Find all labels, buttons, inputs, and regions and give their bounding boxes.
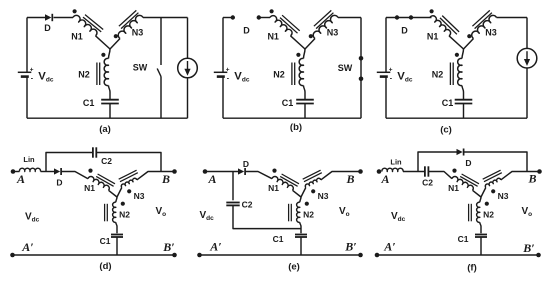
svg-text:N2: N2 (483, 210, 494, 220)
diode D branch (f) (418, 149, 527, 172)
label (c) (440, 125, 452, 136)
node B' (e) (344, 240, 362, 258)
node B' (f) (522, 241, 540, 257)
wire: N3 to top-right (c) (497, 17, 528, 19)
svg-text:N2: N2 (78, 69, 90, 79)
wire: N3 to B (f) (501, 172, 540, 180)
svg-text:D: D (465, 158, 471, 168)
inductor N3 (a) with core and polarity dot (110, 10, 143, 49)
inductor N1 (e) with core and polarity dot (268, 169, 301, 198)
wire: bottom (b) (223, 117, 361, 119)
node: diode cathode terminal (b) (257, 15, 261, 19)
diode D (e) (238, 159, 249, 175)
svg-text:Lin: Lin (23, 155, 35, 164)
capacitor C1 (f) (458, 234, 487, 255)
current source (a) (178, 18, 198, 119)
inductor N3 (f) with core and polarity dot (481, 170, 509, 201)
node B (e) (345, 169, 362, 186)
wire: N3 to top-right (a) (143, 17, 188, 19)
svg-text:A: A (207, 172, 216, 186)
svg-text:(c): (c) (440, 125, 452, 136)
wire: N3 to B (e) (321, 172, 361, 180)
inductor N2 (e) with core and polarity dot (289, 197, 315, 233)
node: diode terminal 2 (c) (409, 15, 413, 19)
svg-text:(e): (e) (288, 262, 300, 273)
node A (e) (203, 169, 217, 186)
svg-text:(a): (a) (99, 124, 111, 135)
capacitor C1 (b) (282, 98, 314, 118)
label Vdc (e) (200, 210, 215, 222)
voltage source Vdc (b) (214, 18, 250, 119)
svg-text:D: D (243, 159, 249, 169)
svg-text:B′: B′ (344, 240, 356, 254)
node B (f) (527, 169, 541, 185)
diode D (a) (44, 14, 52, 33)
capacitor C1 (d) (100, 235, 123, 256)
svg-text:N3: N3 (318, 191, 329, 201)
inductor N3 (e) with core and polarity dot (301, 170, 329, 201)
svg-text:N1: N1 (427, 31, 439, 41)
svg-text:N3: N3 (485, 27, 497, 37)
inductor N3 (b) with core and polarity dot (305, 10, 338, 49)
wire: diode to N1 (a) (54, 17, 74, 19)
current source (c) (517, 18, 537, 119)
label Vdc (d) (25, 212, 40, 224)
capacitor C1 (a) (83, 98, 119, 118)
svg-text:N3: N3 (498, 191, 509, 201)
wire: diode terminal to N1 (b) (259, 17, 270, 19)
inductor Lin (f) (382, 158, 403, 172)
capacitor C2 branch (e) (226, 172, 301, 229)
svg-text:D: D (44, 23, 51, 33)
label Vdc (f) (391, 211, 406, 223)
capacitor C1 (e) (273, 234, 307, 255)
wire: top-left stub to open diode (b) (223, 17, 233, 19)
label (a) (99, 124, 111, 135)
svg-text:N3: N3 (132, 27, 144, 37)
svg-text:C2: C2 (422, 178, 433, 188)
svg-text:B: B (161, 172, 170, 186)
svg-text:C1: C1 (273, 234, 284, 244)
inductor N3 (d) with core and polarity dot (117, 170, 145, 201)
inductor N1 (b) with core and polarity dot (267, 9, 305, 49)
label diode D (b) (243, 25, 250, 35)
wire: bottom (c) (386, 117, 527, 119)
wire: bottom A' to B' (f) (377, 254, 539, 256)
svg-text:C1: C1 (83, 98, 95, 108)
capacitor C2 (f) (422, 166, 433, 187)
inductor N2 (c) with core and polarity dot (432, 49, 464, 99)
inductor N3 (c) with core and polarity dot (464, 10, 497, 49)
inductor Lin (d) (19, 155, 40, 172)
svg-text:(d): (d) (99, 261, 111, 272)
svg-text:(b): (b) (290, 122, 302, 133)
svg-text:D: D (56, 178, 62, 188)
svg-text:D: D (401, 25, 408, 35)
svg-text:B: B (527, 172, 536, 186)
svg-text:A′: A′ (383, 240, 395, 254)
svg-text:N2: N2 (432, 69, 444, 79)
svg-text:N1: N1 (448, 183, 459, 193)
node A' (d) (10, 240, 33, 257)
diode D (d) (54, 168, 63, 188)
inductor N1 (f) with core and polarity dot (448, 169, 481, 198)
svg-text:C2: C2 (242, 199, 253, 209)
svg-text:A′: A′ (21, 240, 33, 254)
svg-text:D: D (243, 25, 250, 35)
wire: bottom A' to B' (e) (200, 254, 361, 256)
inductor N2 (a) with core and polarity dot (78, 49, 110, 99)
wire: bottom A' to B' (d) (13, 254, 175, 256)
label (d) (99, 261, 111, 272)
voltage source Vdc (a) (18, 18, 54, 119)
wire: N3 to top-right (b) (338, 17, 361, 19)
node B (d) (161, 169, 177, 186)
wire: diode to N1 (d) (62, 172, 89, 179)
capacitor C1 (c) (442, 98, 473, 118)
svg-text:N1: N1 (71, 31, 83, 41)
svg-text:N2: N2 (119, 210, 130, 220)
node A' (f) (375, 240, 396, 258)
inductor N2 (d) with core and polarity dot (105, 197, 131, 233)
svg-text:SW: SW (133, 63, 148, 73)
node: diode anode terminal (b) (231, 15, 235, 19)
wire: N3 to B (d) (137, 172, 175, 180)
node: diode terminal 1 (c) (395, 15, 399, 19)
switch SW (a) (133, 18, 161, 119)
svg-text:B′: B′ (162, 240, 174, 254)
svg-text:N1: N1 (267, 31, 279, 41)
label diode D (c) (401, 25, 408, 35)
inductor N1 (a) with core and polarity dot (71, 9, 110, 49)
inductor N1 (d) with core and polarity dot (84, 169, 117, 198)
label (e) (288, 262, 300, 273)
inductor N1 (c) with core and polarity dot (427, 9, 464, 49)
svg-text:N2: N2 (273, 69, 285, 79)
svg-text:+: + (30, 66, 34, 73)
label Vo (d) (156, 206, 167, 218)
wire: diode to N1 (e) (246, 172, 273, 179)
svg-text:A: A (16, 172, 25, 186)
svg-text:C2: C2 (101, 156, 112, 166)
svg-text:N1: N1 (84, 183, 95, 193)
svg-text:N3: N3 (327, 27, 339, 37)
svg-text:C1: C1 (100, 236, 111, 246)
wire: Lin to C2 (f) (403, 171, 424, 173)
node A' (e) (197, 240, 221, 258)
svg-text:N2: N2 (303, 210, 314, 220)
svg-text:C1: C1 (442, 98, 454, 108)
svg-text:C1: C1 (282, 98, 294, 108)
svg-text:B: B (345, 172, 354, 186)
wire: A to Lin (d) (13, 171, 20, 173)
switch SW closed (b) (338, 18, 364, 119)
svg-text:N1: N1 (268, 183, 279, 193)
inductor N2 (b) with core and polarity dot (273, 49, 305, 99)
svg-text:(f): (f) (467, 263, 477, 274)
voltage source Vdc (c) (377, 18, 413, 119)
label (b) (290, 122, 302, 133)
svg-text:Lin: Lin (390, 158, 402, 167)
inductor N2 (f) with core and polarity dot (469, 197, 495, 233)
node B' (d) (162, 240, 176, 257)
wire: bottom (a) (27, 117, 188, 119)
label Vo (f) (522, 206, 533, 218)
svg-text:A: A (380, 172, 389, 186)
svg-text:N3: N3 (134, 191, 145, 201)
wire: top conducting diode (c) (386, 17, 432, 19)
label (f) (467, 263, 477, 274)
svg-text:A′: A′ (209, 240, 221, 254)
wire: Lin to junction (d) (41, 171, 55, 173)
svg-text:SW: SW (338, 63, 353, 73)
wire: A to junction (e) (205, 171, 238, 173)
circuit (a) wire: top-left from source to diode (27, 17, 45, 19)
svg-text:+: + (389, 66, 393, 73)
wire: C2 to N1 (f) (429, 172, 452, 179)
node A (f) (377, 169, 390, 186)
svg-text:B′: B′ (522, 241, 534, 255)
label Vo (e) (339, 206, 350, 218)
capacitor C2 branch (d) (46, 147, 161, 171)
svg-text:+: + (226, 66, 230, 73)
svg-text:C1: C1 (458, 234, 469, 244)
node A (d) (11, 169, 25, 186)
